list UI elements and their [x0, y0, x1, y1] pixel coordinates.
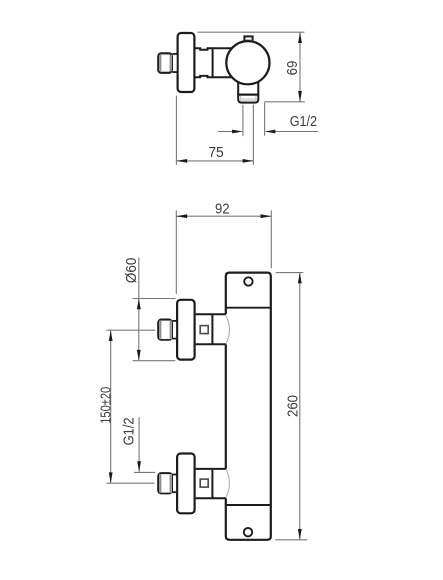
valve body circle [226, 41, 269, 84]
dimension ø60 (escutcheon diameter) [133, 258, 176, 361]
dimension 69 (right side, vertical) [265, 32, 305, 102]
dimension G1/2 leader (bottom inlet) [134, 417, 155, 472]
connector block [196, 314, 226, 344]
dimension 92 (top of front view) [176, 210, 271, 294]
G1/2 extension lines below outlet [243, 102, 265, 165]
svg-text:G1/2: G1/2 [290, 112, 317, 129]
knurled knob bottom [158, 473, 172, 493]
boss line across body (top assembly) [226, 307, 271, 309]
escutcheon top [177, 300, 195, 360]
stem between knob and plate [173, 54, 178, 72]
svg-text:69: 69 [283, 61, 300, 76]
knurled knob top [158, 320, 172, 340]
connector body between plate and valve (side view) [195, 47, 246, 78]
stem [172, 475, 177, 493]
escutcheon bottom [177, 454, 195, 514]
dimension 150±20 (left side) [106, 330, 155, 483]
arrow pointing left at G1/2 right, with label G1/2 [275, 131, 318, 133]
screw hole top [244, 277, 252, 285]
svg-text:75: 75 [208, 144, 223, 161]
svg-text:260: 260 [283, 395, 300, 417]
connector block [196, 469, 226, 498]
escutcheon wall plate (side view) [178, 33, 195, 92]
dimension 75 (bottom of top view) [176, 96, 253, 165]
dimension 260 (right side of front view) [275, 273, 307, 540]
svg-text:Ø60: Ø60 [124, 258, 141, 284]
mixer bar body [226, 273, 271, 540]
tab on top of valve body [244, 36, 252, 44]
stem [172, 321, 177, 339]
square port in connector [200, 479, 208, 487]
knurled knob (side view) [158, 53, 172, 73]
svg-text:G1/2: G1/2 [119, 417, 136, 445]
wire: extension line top (69 dim, from escutcheon top) [198, 31, 305, 33]
screw hole bottom [244, 528, 252, 536]
arrow pointing right at G1/2 left [218, 131, 233, 133]
outlet below valve (pipe + nut) [238, 78, 258, 103]
boss arc [226, 315, 230, 344]
svg-text:92: 92 [215, 200, 230, 217]
svg-text:150±20: 150±20 [97, 387, 114, 424]
boss arc [226, 469, 230, 498]
square port in connector [200, 326, 208, 334]
boss line across body (bottom assembly) [226, 504, 271, 506]
